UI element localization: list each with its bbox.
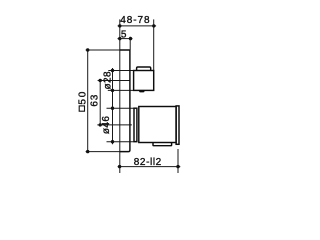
centerline bottom handle [97,124,132,126]
dimension line 63 [99,80,101,126]
dim dot 5 right [129,37,132,40]
extension line front of top valve (above body) [153,19,155,70]
dim dot 48-78 left [118,24,121,27]
extension line dia46 top [107,107,135,109]
extension line dia28 bottom [108,89,134,91]
square symbol of square-50 label [79,106,84,111]
handle bottom tab [153,143,172,146]
extension line dia46 bottom [107,141,137,143]
dim dot dia46 top [111,107,114,110]
dim dot 5 left [118,37,121,40]
escutcheon plate side profile (front, top, bottom edges) [120,50,130,152]
extension line square-50 top [86,49,120,51]
svg-text:5: 5 [78,98,89,104]
dim dot dia28 top [111,69,114,72]
dimension line diameters (shared vertical) [112,68,114,144]
dim dot 82-112 left [118,165,121,168]
dimension line square-50 [87,50,89,152]
dimension line 48-78 [118,25,157,27]
svg-text:63: 63 [90,94,101,107]
dim dot dia46 bottom [111,140,114,143]
extension line dia28 top [108,70,133,72]
top valve lower nub [140,90,144,91]
dim dot 48-78 right [152,24,155,27]
svg-text:48-78: 48-78 [120,15,150,26]
dim dot 63 bottom [99,123,102,126]
top valve body [134,71,154,91]
dim dot 63 top [99,79,102,82]
dimension line 5 [118,38,133,40]
handle body [139,107,176,143]
handle front ring [176,106,179,144]
dim dot square-50 top [86,48,89,51]
dim dot dia28 bottom [111,89,114,92]
dim dot square-50 bottom [86,150,89,153]
svg-text:0: 0 [78,91,89,97]
svg-text:ø46: ø46 [101,116,112,134]
handle flange dia46 [134,108,137,141]
extension line square-50 bottom [86,151,120,153]
svg-text:5: 5 [121,30,127,41]
extension line wall reference (full height) [119,19,121,173]
svg-text:ø28: ø28 [103,71,114,89]
extension line plate front above [129,37,131,50]
top valve cap step [137,67,151,71]
dimension line 82-112 [118,166,181,168]
extension line handle front below [177,149,179,173]
dim dot 82-112 right [176,165,179,168]
centerline top valve [98,79,130,81]
svg-text:82-ll2: 82-ll2 [134,157,162,168]
